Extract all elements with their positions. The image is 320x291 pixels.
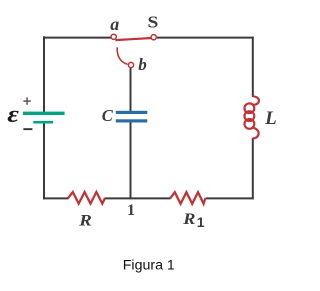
inductor L top hook bbox=[252, 96, 259, 104]
switch contact b bbox=[128, 62, 133, 67]
svg-text:a: a bbox=[110, 14, 119, 34]
svg-text:1: 1 bbox=[127, 202, 135, 219]
switch pivot S bbox=[151, 35, 156, 40]
wire middle branch (switch b to capacitor) bbox=[130, 67, 132, 111]
resistor R zigzag bbox=[68, 192, 105, 204]
svg-text:1: 1 bbox=[197, 214, 205, 230]
label plus sign horizontal stroke bbox=[23, 100, 30, 102]
svg-text:R: R bbox=[182, 210, 195, 227]
label plus sign vertical stroke bbox=[26, 97, 28, 104]
svg-text:S: S bbox=[148, 13, 159, 32]
wire top-right segment bbox=[156, 37, 253, 39]
inductor L coil loop 3 bbox=[245, 119, 255, 129]
label minus sign bbox=[23, 128, 32, 130]
svg-text:Figura 1: Figura 1 bbox=[123, 257, 175, 273]
svg-text:ε: ε bbox=[7, 101, 19, 128]
switch blade bbox=[115, 38, 151, 40]
resistor R1 zigzag bbox=[170, 192, 205, 204]
wire bottom-middle segment bbox=[105, 197, 171, 199]
wire top-left segment bbox=[44, 37, 112, 39]
inductor L coil loop 2 bbox=[245, 111, 255, 121]
switch throw arc bbox=[117, 47, 127, 64]
wire bottom-left segment bbox=[43, 197, 69, 199]
inductor L bottom hook bbox=[252, 127, 259, 138]
wire bottom-right segment bbox=[206, 197, 254, 199]
battery EMF source: negative plate bbox=[33, 121, 53, 124]
capacitor C bottom plate bbox=[116, 119, 148, 122]
wire right upper bbox=[252, 37, 254, 97]
switch contact a bbox=[111, 34, 116, 39]
svg-text:b: b bbox=[138, 55, 147, 74]
capacitor C top plate bbox=[116, 111, 148, 114]
wire left upper bbox=[43, 36, 45, 112]
svg-text:R: R bbox=[78, 211, 92, 229]
wire left lower bbox=[43, 123, 45, 199]
svg-text:C: C bbox=[102, 106, 114, 125]
wire middle branch (capacitor to node 1) bbox=[130, 122, 132, 199]
battery EMF source: positive plate bbox=[23, 112, 65, 115]
inductor L coil loop 1 bbox=[245, 103, 255, 113]
svg-text:L: L bbox=[264, 108, 277, 129]
wire right lower bbox=[252, 138, 254, 199]
